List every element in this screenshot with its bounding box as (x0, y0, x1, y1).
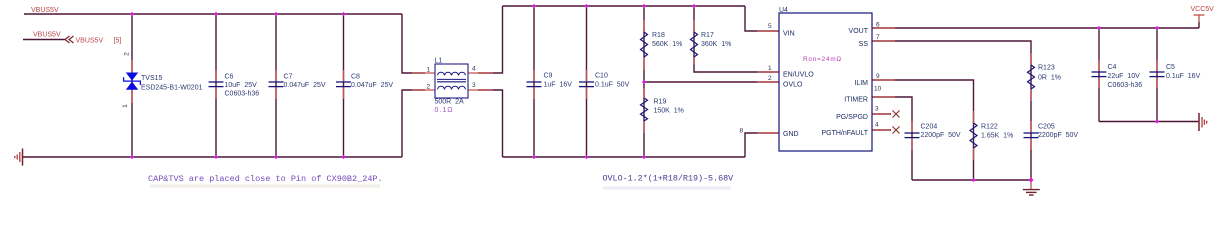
svg-text:3: 3 (472, 82, 476, 89)
svg-text:VBUS5V: VBUS5V (76, 37, 104, 44)
svg-text:3: 3 (875, 106, 879, 113)
svg-text:Ron=24mΩ: Ron=24mΩ (803, 56, 842, 63)
svg-text:2: 2 (427, 84, 431, 91)
svg-text:R18: R18 (652, 32, 665, 39)
svg-text:2: 2 (124, 52, 131, 56)
svg-text:360K 1%: 360K 1% (701, 41, 731, 48)
svg-text:EN/UVLO: EN/UVLO (783, 72, 814, 79)
svg-text:C6: C6 (225, 74, 234, 81)
svg-text:1: 1 (122, 104, 129, 108)
svg-text:VBUS5V: VBUS5V (31, 7, 59, 14)
svg-text:VBUS5V: VBUS5V (33, 31, 61, 38)
svg-text:VIN: VIN (783, 31, 795, 38)
svg-text:1uF 16V: 1uF 16V (544, 81, 573, 88)
svg-text:C4: C4 (1108, 64, 1117, 71)
svg-text:PGTH/nFAULT: PGTH/nFAULT (821, 130, 868, 137)
svg-text:C0603-h36: C0603-h36 (1108, 82, 1143, 89)
svg-text:PG/SPGD: PG/SPGD (836, 114, 868, 121)
svg-text:R122: R122 (981, 124, 998, 131)
svg-text:1: 1 (768, 65, 772, 72)
svg-text:U4: U4 (779, 7, 788, 14)
svg-text:0R 1%: 0R 1% (1038, 75, 1061, 82)
svg-text:10uF 25V: 10uF 25V (225, 82, 258, 89)
svg-text:SS: SS (859, 41, 869, 48)
svg-text:R19: R19 (654, 99, 667, 106)
svg-text:C7: C7 (284, 74, 293, 81)
svg-text:4: 4 (875, 122, 879, 129)
svg-text:2200pF 50V: 2200pF 50V (1038, 132, 1078, 139)
svg-text:10: 10 (874, 86, 882, 93)
svg-text:GND: GND (783, 131, 799, 138)
svg-text:0.1Ω: 0.1Ω (435, 107, 454, 114)
svg-text:L1: L1 (435, 58, 443, 65)
svg-text:[5]: [5] (114, 37, 122, 44)
svg-text:1: 1 (427, 67, 431, 74)
svg-text:C205: C205 (1038, 123, 1055, 130)
svg-text:7: 7 (876, 34, 880, 41)
svg-text:CAP&TVS are placed close to Pi: CAP&TVS are placed close to Pin of CX90B… (148, 174, 383, 184)
svg-text:R17: R17 (701, 32, 714, 39)
svg-text:OVLO: OVLO (783, 82, 803, 89)
svg-text:5: 5 (768, 23, 772, 30)
svg-text:OVLO-1.2*(1+R18/R19)-5.68V: OVLO-1.2*(1+R18/R19)-5.68V (603, 174, 734, 184)
svg-text:C8: C8 (351, 74, 360, 81)
svg-text:500R 2A: 500R 2A (435, 99, 465, 106)
svg-text:0.047uF 25V: 0.047uF 25V (351, 82, 393, 89)
svg-text:0.1uF 16V: 0.1uF 16V (1166, 73, 1201, 80)
svg-text:C0603-h36: C0603-h36 (225, 91, 260, 98)
svg-text:TVS15: TVS15 (141, 75, 163, 82)
svg-text:R123: R123 (1038, 65, 1055, 72)
svg-text:4: 4 (472, 66, 476, 73)
svg-text:150K 1%: 150K 1% (654, 108, 684, 115)
svg-text:0.047uF 25V: 0.047uF 25V (284, 82, 326, 89)
svg-text:C5: C5 (1166, 64, 1175, 71)
svg-text:ILIM: ILIM (854, 80, 868, 87)
svg-text:22uF 10V: 22uF 10V (1108, 73, 1141, 80)
svg-text:VOUT: VOUT (849, 28, 869, 35)
svg-text:ESD245-B1-W0201: ESD245-B1-W0201 (141, 85, 203, 92)
svg-text:0.1uF 50V: 0.1uF 50V (595, 81, 630, 88)
svg-text:2200pF 50V: 2200pF 50V (921, 132, 961, 139)
svg-text:2: 2 (768, 75, 772, 82)
svg-text:C204: C204 (921, 123, 938, 130)
svg-text:VCC5V: VCC5V (1191, 6, 1215, 13)
svg-text:560K 1%: 560K 1% (652, 41, 682, 48)
svg-text:C9: C9 (544, 73, 553, 80)
svg-text:8: 8 (740, 128, 744, 135)
svg-text:C10: C10 (595, 73, 608, 80)
svg-text:1.65K 1%: 1.65K 1% (981, 132, 1013, 139)
svg-text:ITIMER: ITIMER (844, 97, 868, 104)
svg-text:9: 9 (876, 73, 880, 80)
svg-text:6: 6 (876, 22, 880, 29)
